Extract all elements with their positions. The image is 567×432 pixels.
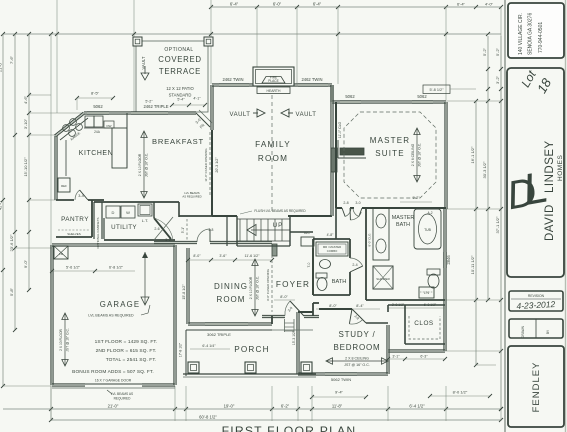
svg-text:HEARTH: HEARTH [267, 89, 281, 93]
terrace outline [136, 41, 208, 112]
svg-text:4'-6": 4'-6" [23, 95, 28, 104]
right extension lines [446, 100, 501, 102]
wall pantry bottom [56, 236, 92, 238]
svg-text:ROOM: ROOM [217, 295, 246, 304]
wall hall bath top [313, 238, 350, 240]
left dimension column lines [2, 34, 4, 386]
svg-text:MASTER: MASTER [370, 136, 411, 145]
svg-text:JST @ 16" O.C.: JST @ 16" O.C. [66, 328, 70, 352]
garage interior dim [52, 270, 135, 272]
svg-text:8'-5": 8'-5" [91, 91, 100, 96]
svg-text:PANTRY: PANTRY [61, 216, 89, 223]
wall bath-closet divider [366, 299, 445, 301]
left dimension ticks [27, 93, 31, 97]
wall family bottom left [211, 130, 213, 216]
svg-text:37'-1 1/2": 37'-1 1/2" [495, 216, 500, 233]
wall hall bath bottom [313, 294, 350, 296]
svg-text:6'-8 1/2": 6'-8 1/2" [109, 266, 124, 270]
svg-text:5'-8 1/2": 5'-8 1/2" [430, 88, 445, 92]
wall pantry right [91, 200, 93, 237]
wall utility right [153, 202, 155, 218]
svg-text:6'-0": 6'-0" [273, 2, 282, 7]
stair hall walls near foyer [289, 216, 291, 246]
wall family bottom [212, 215, 237, 217]
furnace box [54, 246, 68, 259]
wall utility top [94, 201, 179, 203]
svg-text:8'-0": 8'-0" [193, 254, 201, 258]
wall family room left [210, 85, 212, 130]
svg-text:AS REQUIRED: AS REQUIRED [182, 195, 201, 199]
svg-text:MASTER: MASTER [392, 215, 415, 221]
porch post 1 [188, 362, 199, 373]
svg-text:7-0: 7-0 [307, 262, 311, 267]
svg-text:16 X 7 GARAGE DOOR: 16 X 7 GARAGE DOOR [95, 379, 132, 383]
svg-text:2-6: 2-6 [154, 227, 159, 231]
garage door opening [85, 383, 142, 385]
terrace post right [204, 37, 213, 46]
master bottom wall [336, 207, 342, 209]
svg-text:21'-0": 21'-0" [108, 404, 119, 409]
wall kitchen diagonal corner [56, 114, 85, 137]
svg-text:8'-4": 8'-4" [356, 304, 364, 308]
svg-text:OPTIONAL CABINETS: OPTIONAL CABINETS [96, 218, 100, 249]
svg-text:5'-8": 5'-8" [9, 287, 14, 296]
wall family right [330, 85, 332, 216]
svg-text:2 X 10 FLOOR: 2 X 10 FLOOR [249, 276, 253, 299]
svg-text:42'-0": 42'-0" [0, 199, 3, 210]
svg-text:2ND FLOOR = 615 SQ. FT.: 2ND FLOOR = 615 SQ. FT. [96, 348, 157, 354]
david lindsey homes box [507, 68, 564, 277]
svg-text:2846: 2846 [446, 255, 451, 265]
closet shelf dashed [409, 316, 440, 339]
svg-text:3062 TRIPLE: 3062 TRIPLE [207, 332, 231, 337]
svg-text:REQUIRED: REQUIRED [114, 397, 132, 401]
svg-text:1ST FLOOR = 1429 SQ. FT.: 1ST FLOOR = 1429 SQ. FT. [95, 339, 158, 345]
svg-text:23'-6 1/2": 23'-6 1/2" [9, 234, 14, 251]
hall bath door 2-4 [350, 258, 363, 266]
svg-text:7'-6": 7'-6" [9, 55, 14, 64]
wall study right [386, 325, 388, 374]
svg-text:15'-8 1/2": 15'-8 1/2" [182, 284, 186, 300]
svg-text:5'-4": 5'-4" [177, 98, 185, 102]
porch post 3 [301, 362, 312, 373]
svg-text:770-944-0501: 770-944-0501 [538, 22, 544, 53]
window 5062 kitchen [87, 112, 109, 115]
master ceiling joist arrow [416, 128, 418, 182]
svg-text:19'-0": 19'-0" [224, 404, 235, 409]
svg-text:JST @ 16" O.C.: JST @ 16" O.C. [418, 143, 422, 167]
wall dining top [154, 243, 197, 245]
wall foyer left jog to dining [271, 316, 273, 324]
svg-text:9'-0" CASED OPENING: 9'-0" CASED OPENING [266, 268, 270, 300]
fendley box [508, 346, 564, 427]
left extension lines [3, 385, 51, 387]
garage outer sill line [52, 387, 175, 389]
front steps [284, 319, 286, 332]
window 2462 twin family right [298, 84, 328, 87]
title block separator line [504, 0, 506, 432]
stairs up [239, 219, 241, 241]
svg-text:4-23-2012: 4-23-2012 [516, 299, 555, 311]
svg-text:TOTAL = 2541 SQ. FT.: TOTAL = 2541 SQ. FT. [106, 357, 157, 363]
svg-text:REVISION: REVISION [528, 294, 545, 298]
stair newel bar [272, 244, 277, 256]
svg-text:JST @ 16" O.C.: JST @ 16" O.C. [344, 363, 370, 367]
svg-text:3'-10": 3'-10" [23, 118, 28, 129]
porch top edge [186, 329, 272, 331]
terrace post left [133, 37, 142, 46]
kitchen corner range counter [60, 118, 88, 140]
svg-text:PORCH: PORCH [234, 345, 270, 354]
chase fill between family and master [331, 148, 337, 172]
optional cabinets strip [93, 202, 95, 239]
drawn box [509, 319, 563, 338]
svg-text:9'-2": 9'-2" [412, 196, 420, 200]
svg-text:KITCHEN: KITCHEN [79, 150, 113, 157]
master tub [414, 209, 441, 249]
svg-text:FIRST FLOOR PLAN: FIRST FLOOR PLAN [222, 424, 357, 432]
family room cased opening dashed [209, 132, 211, 196]
wall hall bath right [349, 239, 351, 258]
svg-text:VAULT: VAULT [230, 112, 251, 118]
svg-text:2462 TWIN: 2462 TWIN [301, 77, 322, 82]
washer dryer boxes [106, 206, 120, 218]
svg-text:30'-3 1/2": 30'-3 1/2" [482, 161, 487, 178]
svg-text:OPTIONAL: OPTIONAL [164, 47, 193, 53]
svg-text:2-8: 2-8 [209, 228, 214, 232]
svg-text:5062 TWIN: 5062 TWIN [331, 377, 351, 382]
study door diagonal [352, 309, 366, 323]
svg-text:6'-4": 6'-4" [313, 2, 322, 7]
svg-text:A-2: A-2 [428, 211, 433, 215]
window 2462 triple breakfast [131, 112, 168, 115]
svg-text:2462 TWIN: 2462 TWIN [222, 77, 243, 82]
hall dashed opening [186, 219, 188, 240]
svg-text:8'-0": 8'-0" [329, 304, 337, 308]
svg-text:9'-4": 9'-4" [335, 390, 344, 395]
svg-text:16'-1 1/2": 16'-1 1/2" [470, 146, 475, 163]
wall hall bath left [312, 239, 314, 295]
svg-text:2-8: 2-8 [343, 201, 348, 205]
window 3062 triple dining [205, 323, 248, 326]
svg-text:BATH: BATH [332, 279, 347, 285]
svg-text:L.T.: L.T. [142, 218, 148, 223]
porch bottom edge [183, 373, 316, 375]
svg-text:3-0: 3-0 [355, 201, 360, 205]
stair hall wall [226, 216, 228, 246]
svg-text:11'-0" CASED OPENING: 11'-0" CASED OPENING [204, 148, 208, 182]
svg-text:4'-1": 4'-1" [193, 97, 201, 101]
master suite tray ceiling dashed octagon [344, 112, 436, 198]
refrigerator [58, 178, 70, 192]
svg-text:15'-10 1/2": 15'-10 1/2" [23, 157, 28, 177]
wall garage right [173, 245, 175, 385]
study ceiling joist arrow [326, 360, 388, 362]
right dimension column lines [475, 101, 477, 365]
svg-text:LINDSEY: LINDSEY [544, 140, 556, 193]
front door leaf and arc [290, 301, 304, 316]
svg-text:L'N: L'N [424, 291, 430, 295]
svg-text:REF: REF [61, 184, 67, 188]
svg-text:9'-0": 9'-0" [23, 259, 28, 268]
svg-text:6'-4 1/4": 6'-4 1/4" [202, 344, 216, 348]
svg-text:3'-1": 3'-1" [392, 355, 400, 359]
svg-text:6'-3": 6'-3" [420, 355, 428, 359]
svg-text:FENDLEY: FENDLEY [531, 362, 542, 413]
svg-text:10'-11 1/2": 10'-11 1/2" [470, 255, 475, 274]
svg-text:6'-2": 6'-2" [281, 404, 290, 409]
svg-text:LVL BEAMS AS REQUIRED: LVL BEAMS AS REQUIRED [88, 314, 134, 318]
svg-text:6'-4 1/2": 6'-4 1/2" [409, 404, 425, 409]
kitchen top counter and sink [84, 127, 112, 129]
wall jog family to master [330, 85, 332, 102]
svg-text:DINING: DINING [214, 282, 248, 291]
svg-text:5'-2": 5'-2" [145, 100, 153, 104]
svg-text:LVL BEAMS AS: LVL BEAMS AS [111, 392, 133, 396]
svg-text:5062: 5062 [345, 94, 355, 99]
kitchen peninsula counter [112, 128, 127, 168]
wall garage bottom [52, 385, 85, 387]
svg-text:2 X 6 CEILING: 2 X 6 CEILING [411, 143, 415, 166]
breakfast joist arrow [143, 131, 145, 198]
wall foyer-study jog [312, 303, 314, 316]
svg-text:BEDROOM: BEDROOM [334, 343, 381, 352]
wall study left [296, 312, 298, 374]
svg-text:2-4: 2-4 [352, 263, 357, 267]
svg-text:5'-6 1/2": 5'-6 1/2" [66, 266, 81, 270]
svg-text:TUB: TUB [424, 228, 432, 232]
svg-text:STUDY /: STUDY / [338, 330, 375, 339]
svg-text:FLUSH LVL BEAMS AS REQUIRED: FLUSH LVL BEAMS AS REQUIRED [254, 209, 306, 213]
svg-text:DW: DW [107, 124, 112, 128]
wall master bath left [365, 208, 367, 300]
hall bath sink [320, 260, 331, 269]
svg-text:COMBO: COMBO [327, 249, 338, 253]
svg-text:8'-0": 8'-0" [280, 295, 288, 299]
master bath vanity [373, 208, 389, 260]
wall stair hall bottom [237, 245, 290, 247]
family room center dashed line [271, 95, 273, 214]
dim box 5-8half top right [423, 85, 450, 94]
master toilet [427, 269, 440, 275]
svg-text:2 X 10 FLOOR: 2 X 10 FLOOR [138, 153, 142, 176]
wall utility bottom [104, 239, 175, 241]
svg-text:5'-2": 5'-2" [482, 47, 487, 56]
svg-text:11'-6 1/2": 11'-6 1/2" [245, 254, 261, 258]
wall closet top [388, 304, 445, 306]
svg-text:17'-8 1/2": 17'-8 1/2" [179, 342, 183, 357]
svg-text:JST @ 16" O.C.: JST @ 16" O.C. [256, 276, 260, 300]
svg-text:11'-8": 11'-8" [332, 404, 343, 409]
wall kitchen breakfast top [84, 113, 196, 115]
wall garage top [52, 245, 175, 247]
wall hall-bath region left [335, 208, 337, 239]
svg-text:UP: UP [273, 222, 284, 229]
svg-text:20'-3 1/2": 20'-3 1/2" [215, 157, 219, 173]
kitchen interior dim line [77, 97, 113, 99]
svg-text:BATH: BATH [396, 222, 410, 228]
window 5062 master right [412, 101, 433, 104]
svg-text:PLACE: PLACE [268, 79, 278, 83]
wall closet bottom exterior [388, 351, 445, 353]
top right small dims [446, 6, 501, 8]
wall utility left [103, 218, 105, 239]
svg-text:60'-8 1/2": 60'-8 1/2" [199, 415, 217, 420]
hall door arc to dining [197, 229, 210, 242]
svg-text:UTILITY: UTILITY [111, 224, 137, 231]
window 2462 twin family left [219, 84, 249, 87]
svg-text:SENOIA GA 30276: SENOIA GA 30276 [528, 13, 534, 55]
bottom dimension row 2 [3, 408, 501, 410]
second top dimension line [3, 33, 501, 35]
svg-text:3'-6": 3'-6" [219, 254, 227, 258]
utility diagonal door wall [154, 218, 171, 239]
svg-text:GARAGE: GARAGE [100, 300, 141, 309]
svg-text:FOYER: FOYER [276, 280, 310, 289]
svg-text:D: D [112, 210, 115, 215]
wall study bottom [298, 374, 388, 376]
wall master suite right [444, 102, 446, 209]
wall master suite top [332, 102, 446, 104]
svg-text:4'-8": 4'-8" [327, 233, 335, 237]
wall foyer front [262, 317, 285, 319]
garage joist down arrow [144, 252, 146, 305]
hearth [257, 87, 290, 94]
svg-text:21'-0": 21'-0" [0, 61, 3, 72]
wall kitchen left [54, 136, 56, 200]
svg-text:COVERED: COVERED [158, 55, 201, 64]
wall hall-foyer top [290, 231, 313, 233]
svg-text:8'-0" CLG: 8'-0" CLG [368, 233, 372, 247]
sheet right edge [565, 0, 567, 432]
svg-text:BREAKFAST: BREAKFAST [152, 137, 204, 146]
wall study right upper [366, 322, 388, 324]
kitchen left counter [65, 140, 67, 176]
svg-text:HOMES: HOMES [557, 155, 564, 182]
svg-text:2462 TRIPLE: 2462 TRIPLE [143, 104, 168, 109]
wall right side bath-closet [443, 209, 445, 351]
svg-text:2 X 10 FLOOR: 2 X 10 FLOOR [59, 328, 63, 350]
fireplace [253, 67, 294, 86]
svg-text:CLOS: CLOS [414, 320, 433, 327]
wall closet inner bottom [405, 343, 445, 345]
svg-text:BONUS ROOM ADDS = 507 SQ. FT.: BONUS ROOM ADDS = 507 SQ. FT. [72, 369, 154, 375]
garage joist arrow left [64, 313, 66, 366]
svg-text:24A: 24A [94, 130, 101, 134]
foyer cased opening to dining dashed [271, 255, 273, 312]
wall pantry-kitchen bottom [56, 199, 74, 201]
svg-text:5'-1": 5'-1" [181, 227, 185, 233]
svg-text:ROOM: ROOM [258, 154, 288, 163]
hall to closet walls [387, 305, 389, 312]
linen closet [419, 287, 434, 298]
wall family room top [212, 85, 332, 87]
svg-text:3'-2": 3'-2" [495, 75, 500, 84]
svg-text:6'-4": 6'-4" [457, 2, 466, 7]
svg-text:15'-3 1/2": 15'-3 1/2" [292, 330, 296, 345]
window 5062 twin study [325, 373, 357, 376]
svg-text:SUITE: SUITE [375, 149, 405, 158]
svg-text:FAMILY: FAMILY [255, 140, 291, 149]
hall door arcs master bath [350, 212, 361, 220]
svg-text:140 VILLAGE CIR.: 140 VILLAGE CIR. [518, 13, 524, 55]
terrace dims [172, 104, 205, 106]
porch left edge [185, 330, 187, 376]
laundry tub [138, 204, 152, 216]
master closet shelf bar [340, 148, 364, 155]
window 2846 master bath [444, 252, 447, 268]
wall foyer right [312, 248, 314, 295]
svg-text:SHELVES: SHELVES [67, 232, 81, 236]
hall bath toilet [316, 273, 327, 278]
top extension lines left portion [56, 0, 58, 113]
svg-text:5062: 5062 [93, 104, 103, 109]
svg-text:11'-0" CLG: 11'-0" CLG [338, 121, 342, 138]
wall breakfast bottom [179, 215, 212, 217]
svg-text:5062: 5062 [417, 94, 427, 99]
svg-text:5'-2": 5'-2" [495, 47, 500, 56]
wall study top [298, 311, 313, 313]
dining joist arrow [254, 259, 256, 316]
window 5062 master left [340, 101, 361, 104]
wall breakfast corner diagonal door 3-0 FR [196, 113, 210, 127]
wall master left [335, 102, 337, 208]
pantry shelves dashed [58, 229, 90, 231]
bottom extension lines [50, 386, 52, 421]
bottom dimension row 3 total width [51, 419, 501, 421]
revision box [509, 291, 563, 311]
wall garage left [50, 245, 52, 385]
svg-text:6'-4": 6'-4" [230, 2, 239, 7]
wall dining left [186, 248, 188, 324]
ac nook [301, 237, 314, 246]
top extension lines to family room wall [256, 7, 258, 84]
svg-text:JST @ 16" O.C.: JST @ 16" O.C. [145, 153, 149, 177]
svg-text:12 X 12 PATIO: 12 X 12 PATIO [166, 86, 194, 91]
porch post 2 [245, 362, 256, 373]
hall bath vanity mr master combo [316, 242, 348, 256]
svg-text:4'-0": 4'-0" [485, 2, 494, 7]
svg-text:DAVID: DAVID [544, 204, 556, 241]
wall hall right of utility [178, 202, 180, 217]
wall dining front [188, 324, 272, 326]
svg-text:W: W [126, 210, 130, 215]
top dimension line row 1 [211, 6, 446, 8]
title block address box [508, 3, 564, 58]
svg-text:VAULT: VAULT [296, 112, 317, 118]
svg-text:2 X 8 CEILING: 2 X 8 CEILING [345, 357, 369, 361]
master shower [373, 266, 393, 289]
svg-text:SHOWER: SHOWER [376, 277, 390, 281]
svg-text:TERRACE: TERRACE [159, 67, 201, 76]
svg-text:8'-0 1/2": 8'-0 1/2" [453, 390, 468, 395]
wall closet left [404, 305, 406, 344]
svg-text:DRAWN: DRAWN [521, 325, 525, 338]
